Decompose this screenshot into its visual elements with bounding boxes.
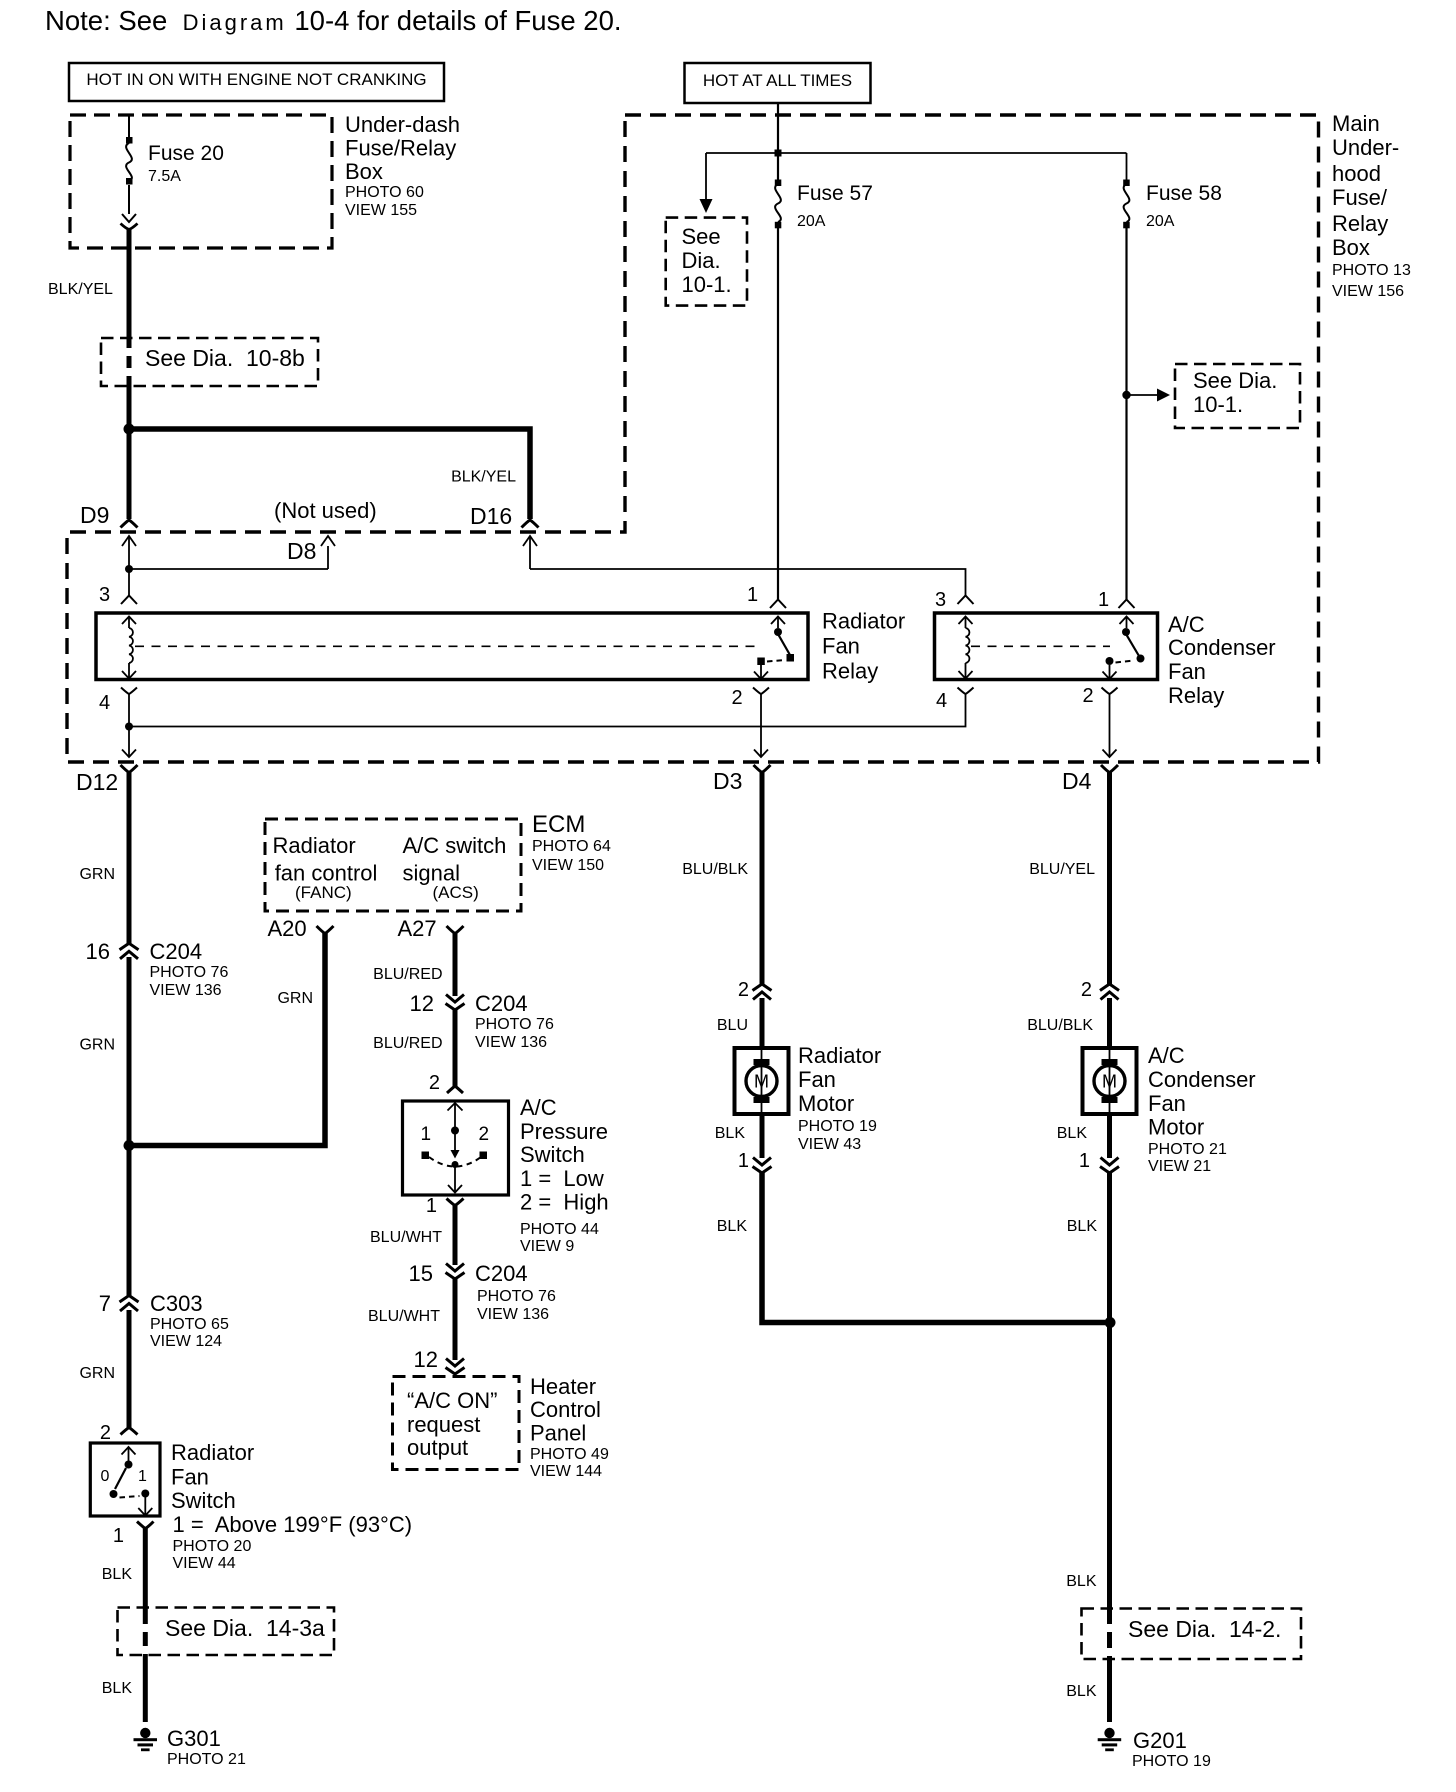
svg-text:Heater: Heater — [530, 1374, 596, 1399]
svg-text:G301: G301 — [167, 1726, 221, 1751]
svg-text:ECM: ECM — [532, 811, 585, 838]
svg-text:A20: A20 — [268, 916, 307, 941]
svg-text:BLU/YEL: BLU/YEL — [1029, 861, 1095, 878]
svg-text:Under-: Under- — [1332, 135, 1399, 160]
svg-text:VIEW 155: VIEW 155 — [345, 202, 417, 219]
svg-text:Fan: Fan — [1168, 659, 1206, 684]
svg-text:D9: D9 — [80, 502, 109, 528]
svg-text:VIEW 124: VIEW 124 — [150, 1333, 222, 1350]
svg-text:PHOTO 21: PHOTO 21 — [167, 1751, 246, 1768]
svg-text:VIEW 144: VIEW 144 — [530, 1463, 602, 1480]
svg-text:VIEW 9: VIEW 9 — [520, 1238, 574, 1255]
svg-text:1: 1 — [1079, 1150, 1090, 1172]
svg-text:BLU/BLK: BLU/BLK — [682, 861, 748, 878]
svg-text:BLK: BLK — [717, 1218, 748, 1235]
svg-text:BLK/YEL: BLK/YEL — [451, 469, 516, 486]
svg-text:VIEW 136: VIEW 136 — [150, 982, 222, 999]
svg-text:A/C switch: A/C switch — [403, 833, 507, 858]
svg-text:2: 2 — [1081, 979, 1092, 1001]
svg-text:2: 2 — [732, 687, 743, 709]
svg-text:Fuse/Relay: Fuse/Relay — [345, 136, 456, 161]
svg-text:20A: 20A — [1146, 213, 1175, 230]
svg-text:Fuse 20: Fuse 20 — [148, 142, 224, 165]
svg-text:10-1.: 10-1. — [682, 272, 732, 297]
svg-text:BLK/YEL: BLK/YEL — [48, 281, 113, 298]
svg-text:PHOTO 21: PHOTO 21 — [1148, 1141, 1227, 1158]
svg-text:Main: Main — [1332, 111, 1380, 136]
svg-text:BLU/WHT: BLU/WHT — [368, 1308, 440, 1325]
svg-text:12: 12 — [414, 1347, 438, 1372]
svg-text:3: 3 — [99, 584, 110, 606]
svg-text:BLK: BLK — [1066, 1573, 1097, 1590]
svg-text:Switch: Switch — [520, 1142, 585, 1167]
svg-text:BLK: BLK — [102, 1566, 133, 1583]
svg-text:PHOTO 60: PHOTO 60 — [345, 184, 424, 201]
svg-text:Fuse/: Fuse/ — [1332, 185, 1388, 210]
svg-text:2: 2 — [429, 1072, 440, 1094]
svg-text:VIEW 136: VIEW 136 — [475, 1034, 547, 1051]
svg-text:A27: A27 — [398, 916, 437, 941]
svg-text:fan control: fan control — [275, 861, 378, 886]
svg-text:(ACS): (ACS) — [433, 883, 479, 902]
svg-text:0: 0 — [101, 1468, 110, 1485]
svg-text:Control: Control — [530, 1397, 601, 1422]
svg-text:BLK: BLK — [1057, 1125, 1088, 1142]
svg-text:HOT IN ON WITH ENGINE NOT CRAN: HOT IN ON WITH ENGINE NOT CRANKING — [86, 70, 426, 89]
svg-text:(Not used): (Not used) — [274, 498, 377, 523]
svg-text:BLK: BLK — [1066, 1683, 1097, 1700]
svg-text:Dia.: Dia. — [682, 248, 721, 273]
svg-text:Switch: Switch — [171, 1488, 236, 1513]
svg-text:D12: D12 — [76, 769, 118, 795]
svg-text:PHOTO 76: PHOTO 76 — [150, 964, 229, 981]
svg-text:PHOTO 19: PHOTO 19 — [1132, 1753, 1211, 1770]
svg-text:2: 2 — [738, 979, 749, 1001]
svg-text:C303: C303 — [150, 1291, 203, 1316]
svg-text:Fan: Fan — [822, 634, 860, 659]
svg-text:C204: C204 — [150, 939, 203, 964]
svg-text:BLU/RED: BLU/RED — [373, 1035, 442, 1052]
svg-text:2: 2 — [100, 1422, 111, 1444]
svg-text:Under-dash: Under-dash — [345, 112, 460, 137]
svg-text:1: 1 — [426, 1195, 437, 1217]
svg-text:See Dia. 14-3a: See Dia. 14-3a — [165, 1615, 325, 1641]
svg-text:1: 1 — [1098, 589, 1109, 611]
svg-text:Motor: Motor — [798, 1091, 854, 1116]
svg-text:GRN: GRN — [79, 1365, 115, 1382]
svg-text:1: 1 — [138, 1468, 147, 1485]
svg-text:Radiator: Radiator — [798, 1043, 881, 1068]
svg-text:Fan: Fan — [798, 1067, 836, 1092]
svg-text:PHOTO 13: PHOTO 13 — [1332, 262, 1411, 279]
svg-text:3: 3 — [935, 589, 946, 611]
svg-text:signal: signal — [403, 861, 460, 886]
svg-text:Relay: Relay — [1332, 211, 1388, 236]
svg-text:Note: See Diagram 10-4 for de: Note: See Diagram 10-4 for details of Fu… — [45, 5, 622, 36]
svg-text:PHOTO 49: PHOTO 49 — [530, 1446, 609, 1463]
svg-text:Radiator: Radiator — [273, 833, 356, 858]
svg-text:PHOTO 76: PHOTO 76 — [477, 1288, 556, 1305]
svg-text:A/C: A/C — [520, 1095, 557, 1120]
svg-text:2: 2 — [479, 1124, 490, 1145]
svg-text:See Dia.: See Dia. — [1193, 368, 1277, 393]
svg-text:D16: D16 — [470, 503, 512, 529]
svg-text:1 = Low: 1 = Low — [520, 1166, 604, 1191]
svg-text:request: request — [407, 1412, 480, 1437]
svg-text:1: 1 — [747, 584, 758, 606]
svg-text:Motor: Motor — [1148, 1115, 1204, 1140]
svg-text:12: 12 — [410, 991, 434, 1016]
svg-text:BLU/RED: BLU/RED — [373, 966, 442, 983]
svg-text:GRN: GRN — [79, 866, 115, 883]
svg-text:Fuse 57: Fuse 57 — [797, 182, 873, 205]
svg-text:VIEW 21: VIEW 21 — [1148, 1158, 1211, 1175]
svg-text:PHOTO 20: PHOTO 20 — [173, 1538, 252, 1555]
svg-text:GRN: GRN — [277, 990, 313, 1007]
svg-text:HOT AT ALL TIMES: HOT AT ALL TIMES — [703, 71, 852, 90]
svg-text:See: See — [682, 224, 721, 249]
svg-text:1: 1 — [738, 1150, 749, 1172]
svg-text:BLU/WHT: BLU/WHT — [370, 1229, 442, 1246]
svg-text:PHOTO 44: PHOTO 44 — [520, 1221, 599, 1238]
svg-text:Relay: Relay — [822, 659, 878, 684]
svg-text:Radiator: Radiator — [171, 1440, 254, 1465]
svg-text:BLU/BLK: BLU/BLK — [1027, 1017, 1093, 1034]
svg-text:Relay: Relay — [1168, 683, 1224, 708]
svg-text:VIEW 156: VIEW 156 — [1332, 283, 1404, 300]
svg-text:PHOTO 65: PHOTO 65 — [150, 1316, 229, 1333]
svg-text:VIEW 44: VIEW 44 — [173, 1555, 236, 1572]
svg-text:1 = Above 199°F (93°C): 1 = Above 199°F (93°C) — [173, 1512, 413, 1537]
svg-text:BLK: BLK — [1067, 1218, 1098, 1235]
svg-text:Fan: Fan — [171, 1465, 209, 1490]
svg-text:2: 2 — [1083, 685, 1094, 707]
svg-text:Condenser: Condenser — [1168, 635, 1276, 660]
svg-text:C204: C204 — [475, 991, 528, 1016]
svg-text:2 = High: 2 = High — [520, 1190, 609, 1215]
svg-text:A/C: A/C — [1148, 1043, 1185, 1068]
svg-text:See Dia. 14-2.: See Dia. 14-2. — [1128, 1616, 1281, 1642]
svg-text:GRN: GRN — [79, 1037, 115, 1054]
svg-text:See Dia. 10-8b: See Dia. 10-8b — [145, 345, 305, 371]
svg-text:(FANC): (FANC) — [295, 883, 352, 902]
svg-text:Radiator: Radiator — [822, 609, 905, 634]
svg-text:16: 16 — [86, 939, 110, 964]
svg-text:hood: hood — [1332, 161, 1381, 186]
svg-text:7.5A: 7.5A — [148, 168, 181, 185]
svg-text:15: 15 — [409, 1261, 433, 1286]
svg-text:BLK: BLK — [102, 1680, 133, 1697]
svg-text:PHOTO 19: PHOTO 19 — [798, 1118, 877, 1135]
svg-text:VIEW 150: VIEW 150 — [532, 857, 604, 874]
svg-text:C204: C204 — [475, 1261, 528, 1286]
svg-text:D8: D8 — [287, 538, 316, 564]
svg-text:PHOTO 64: PHOTO 64 — [532, 838, 611, 855]
svg-text:M: M — [1102, 1072, 1117, 1092]
svg-text:Box: Box — [1332, 235, 1370, 260]
svg-text:4: 4 — [936, 690, 947, 712]
svg-text:Condenser: Condenser — [1148, 1067, 1256, 1092]
svg-text:Fan: Fan — [1148, 1091, 1186, 1116]
svg-text:output: output — [407, 1435, 468, 1460]
svg-text:M: M — [754, 1072, 769, 1092]
svg-text:7: 7 — [99, 1291, 111, 1316]
svg-text:PHOTO 76: PHOTO 76 — [475, 1016, 554, 1033]
svg-text:BLK: BLK — [715, 1125, 746, 1142]
svg-text:20A: 20A — [797, 213, 826, 230]
svg-text:1: 1 — [113, 1525, 124, 1547]
svg-text:Panel: Panel — [530, 1421, 586, 1446]
svg-text:D3: D3 — [713, 768, 742, 794]
svg-text:D4: D4 — [1062, 768, 1092, 794]
svg-text:A/C: A/C — [1168, 612, 1205, 637]
svg-text:Box: Box — [345, 159, 383, 184]
svg-text:4: 4 — [99, 692, 110, 714]
svg-text:G201: G201 — [1133, 1728, 1187, 1753]
svg-text:Fuse 58: Fuse 58 — [1146, 182, 1222, 205]
svg-text:Pressure: Pressure — [520, 1119, 608, 1144]
svg-text:BLU: BLU — [717, 1017, 748, 1034]
svg-text:1: 1 — [421, 1124, 432, 1145]
svg-text:VIEW 43: VIEW 43 — [798, 1136, 861, 1153]
svg-text:VIEW 136: VIEW 136 — [477, 1306, 549, 1323]
svg-text:“A/C ON”: “A/C ON” — [407, 1388, 497, 1413]
svg-text:10-1.: 10-1. — [1193, 392, 1243, 417]
